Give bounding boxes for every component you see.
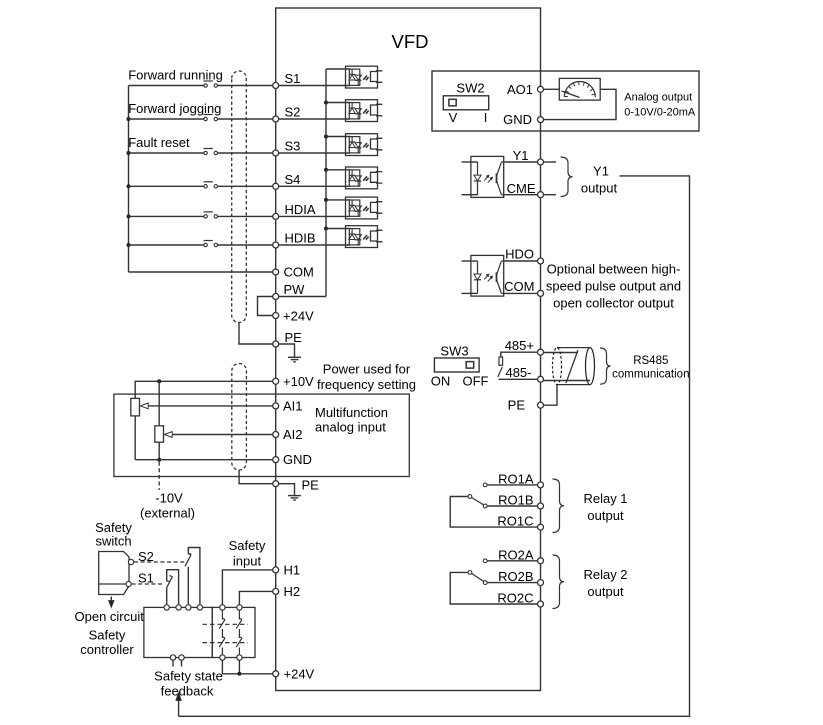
switch S3 left contact bbox=[204, 151, 207, 154]
wire F2 stub bbox=[181, 660, 183, 666]
wire bus to switch S2 bbox=[129, 118, 205, 120]
meter body bbox=[559, 78, 600, 100]
switch HDIA right contact bbox=[214, 215, 217, 218]
svg-text:Relay 1: Relay 1 bbox=[583, 491, 627, 506]
svg-text:GND: GND bbox=[503, 112, 532, 127]
safety controller box bbox=[144, 607, 212, 657]
svg-text:GND: GND bbox=[283, 452, 312, 467]
terminal AI1 bbox=[273, 403, 279, 409]
safety switch divider bbox=[99, 583, 129, 585]
dashed link row1 bbox=[203, 623, 249, 625]
svg-text:OFF: OFF bbox=[463, 374, 489, 389]
terminal PE (485) bbox=[538, 402, 544, 408]
wire analog shield to PE bbox=[239, 470, 273, 484]
junction bus-S3 bbox=[127, 151, 131, 155]
svg-text:+24V: +24V bbox=[284, 666, 315, 681]
wire switch to terminal S4 bbox=[218, 185, 276, 187]
ground symbol (analog PE) bbox=[288, 496, 301, 501]
brace Relay 1 bbox=[553, 479, 565, 533]
twisted pair crossover bbox=[566, 350, 578, 383]
wire switch to terminal S3 bbox=[218, 152, 276, 154]
optocoupler HDO output bbox=[462, 255, 504, 296]
svg-text:HDIB: HDIB bbox=[285, 231, 316, 246]
wire bus to switch S1 bbox=[129, 85, 205, 87]
wire meter to GND bbox=[544, 89, 617, 119]
terminal HDIB bbox=[273, 242, 279, 248]
svg-text:0-10V/0-20mA: 0-10V/0-20mA bbox=[624, 106, 696, 118]
shielded cable (digital inputs) bbox=[232, 71, 247, 323]
wire Y1 output feedback bbox=[179, 176, 690, 716]
svg-text:speed pulse output and: speed pulse output and bbox=[546, 279, 681, 294]
wire S1 loop bbox=[167, 570, 179, 605]
wire RO2 common bbox=[450, 572, 537, 604]
S2 contact arm bbox=[185, 555, 191, 567]
svg-text:RO2C: RO2C bbox=[497, 591, 533, 606]
svg-text:+24V: +24V bbox=[283, 309, 314, 324]
switch S4 lever bbox=[204, 181, 213, 183]
svg-text:PW: PW bbox=[284, 282, 306, 297]
terminal +24V bbox=[273, 313, 279, 319]
switch HDIB right contact bbox=[214, 243, 217, 246]
terminal +10V bbox=[273, 378, 279, 384]
terminal CME bbox=[538, 192, 544, 198]
cable shield bottom bbox=[557, 384, 590, 386]
terminal GND (analog out) bbox=[538, 117, 544, 123]
svg-text:RO1B: RO1B bbox=[498, 493, 533, 508]
relay RO2 contact B bbox=[483, 581, 487, 585]
wire switch to terminal S2 bbox=[218, 118, 276, 120]
svg-text:HDIA: HDIA bbox=[285, 202, 316, 217]
wire RO2B bbox=[487, 582, 538, 584]
terminal HDO bbox=[538, 258, 544, 264]
optocoupler input S4 bbox=[346, 167, 383, 189]
feedback terminal F1 bbox=[170, 655, 175, 660]
wire PW rail to opto S4 bbox=[326, 169, 350, 171]
terminal RO1A bbox=[538, 482, 544, 488]
terminal T1 bbox=[164, 605, 169, 610]
wire PW to opto rail bbox=[279, 296, 326, 298]
terminal B6 bbox=[237, 655, 242, 660]
arrow open circuit bbox=[109, 597, 114, 608]
wire 485- stub bbox=[499, 378, 538, 380]
switch S1 lever bbox=[204, 80, 213, 82]
svg-text:S2: S2 bbox=[285, 105, 301, 120]
terminal H2 input bbox=[237, 605, 242, 610]
wire RO1B bbox=[487, 505, 538, 507]
switch SW3 knob bbox=[466, 362, 474, 369]
safety switch S2 contact bbox=[128, 559, 133, 564]
svg-text:VFD: VFD bbox=[392, 31, 429, 52]
wire B6 down bbox=[238, 660, 240, 674]
terminal PE (top) bbox=[273, 341, 279, 347]
wire Y1 bbox=[504, 161, 541, 163]
switch S4 right contact bbox=[214, 185, 217, 188]
safety switch S1 contact bbox=[126, 581, 131, 586]
safety contact upper x239.4 bbox=[236, 610, 242, 638]
terminal RO2A bbox=[538, 558, 544, 564]
svg-text:CME: CME bbox=[507, 181, 536, 196]
wire left common bus bbox=[128, 86, 130, 273]
switch termination lever bbox=[498, 367, 503, 377]
svg-text:PE: PE bbox=[285, 330, 303, 345]
svg-text:(external): (external) bbox=[140, 506, 195, 521]
svg-text:485+: 485+ bbox=[505, 338, 534, 353]
relay RO1 contact A bbox=[483, 483, 487, 487]
terminal AO1 bbox=[538, 86, 544, 92]
wire pot2 bottom bbox=[158, 442, 160, 460]
wire S2 loop bbox=[188, 548, 200, 605]
wire H1 bbox=[222, 570, 272, 605]
wire PE to ground bbox=[279, 344, 295, 357]
wire Y1 terminal stub bbox=[544, 161, 557, 163]
svg-text:controller: controller bbox=[80, 642, 134, 657]
svg-text:HDO: HDO bbox=[505, 247, 534, 262]
wire terminal S2 to opto bbox=[279, 118, 350, 120]
wire bus to switch HDIB bbox=[129, 244, 205, 246]
svg-text:output: output bbox=[587, 584, 624, 599]
wire PW rail to opto S1 bbox=[326, 68, 350, 70]
shielded cable (analog) bbox=[232, 364, 247, 470]
junction bus-S4 bbox=[127, 184, 131, 188]
optocoupler input HDIA bbox=[346, 197, 383, 219]
svg-text:485-: 485- bbox=[505, 365, 531, 380]
wire safety outputs to +24V bbox=[222, 660, 272, 674]
VFD enclosure box bbox=[276, 8, 541, 691]
optocoupler Y1 output bbox=[462, 156, 504, 197]
svg-text:Fault reset: Fault reset bbox=[128, 135, 190, 150]
wire COM bbox=[129, 271, 276, 273]
svg-text:AI1: AI1 bbox=[283, 398, 303, 413]
switch S1 right contact bbox=[214, 84, 217, 87]
terminal HDIA bbox=[273, 213, 279, 219]
optocoupler input S1 bbox=[346, 66, 383, 88]
wire PW rail to opto S3 bbox=[326, 136, 350, 138]
safety contact upper x222.4 bbox=[219, 610, 225, 638]
ground symbol (top PE) bbox=[288, 357, 301, 362]
svg-text:output: output bbox=[581, 181, 618, 196]
junction bus-HDIB bbox=[127, 243, 131, 247]
optocoupler input S2 bbox=[346, 100, 383, 122]
brace RS485 bbox=[600, 348, 611, 384]
svg-text:Y1: Y1 bbox=[513, 148, 529, 163]
dashed link row2 bbox=[203, 642, 249, 644]
wire HDO bbox=[504, 260, 541, 262]
switch S2 lever bbox=[204, 114, 213, 116]
switch S2 left contact bbox=[204, 117, 207, 120]
junction bus-HDIA bbox=[127, 214, 131, 218]
multifunction analog input box bbox=[114, 394, 409, 476]
potentiometer AI1 bbox=[131, 398, 140, 416]
junction +10V pot2 bbox=[157, 379, 161, 383]
wire S1 arm to controller bbox=[166, 588, 168, 604]
wire RO1A bbox=[487, 484, 538, 486]
wire bus to switch S4 bbox=[129, 185, 205, 187]
terminal T2 bbox=[176, 605, 181, 610]
wire terminal S1 to opto bbox=[279, 85, 350, 87]
terminal S2 bbox=[273, 116, 279, 122]
svg-text:COM: COM bbox=[504, 279, 534, 294]
terminal RO2C bbox=[538, 601, 544, 607]
safety relay contact box bbox=[212, 607, 255, 657]
arrow AI1 wiper bbox=[140, 403, 148, 409]
wire 485+ to resistor bbox=[501, 352, 538, 357]
safety switch body bbox=[99, 552, 129, 595]
wire CME terminal stub bbox=[544, 194, 557, 196]
terminal PW bbox=[273, 294, 279, 300]
junction PW rail HDIA bbox=[324, 198, 328, 202]
wire 485+ into cable bbox=[544, 352, 579, 354]
resistor RS485 termination bbox=[499, 357, 503, 365]
svg-text:SW3: SW3 bbox=[440, 343, 468, 358]
cable shield top bbox=[557, 347, 590, 349]
relay RO2 contact A bbox=[483, 559, 487, 563]
wire AI1 wiper bbox=[148, 405, 273, 407]
svg-text:PE: PE bbox=[302, 478, 320, 493]
relay RO1 contact B bbox=[483, 504, 487, 508]
wire bus to switch HDIA bbox=[129, 215, 205, 217]
terminal +24V (bottom) bbox=[273, 671, 279, 677]
svg-text:H1: H1 bbox=[284, 563, 301, 578]
cable end right bbox=[586, 348, 595, 385]
brace Relay 2 bbox=[553, 555, 565, 609]
svg-text:S1: S1 bbox=[285, 71, 301, 86]
switch HDIA left contact bbox=[204, 215, 207, 218]
svg-text:input: input bbox=[233, 554, 262, 569]
switch SW2 body bbox=[443, 96, 488, 110]
optocoupler input S3 bbox=[346, 134, 383, 156]
terminal COM bbox=[273, 269, 279, 275]
S2 contact arm tick bbox=[188, 554, 191, 555]
terminal T4 bbox=[197, 605, 202, 610]
S1 contact arm bbox=[166, 577, 172, 589]
wire GND rail bbox=[135, 459, 273, 461]
terminal B5 bbox=[220, 655, 225, 660]
wire terminal HDIB to opto bbox=[279, 244, 350, 246]
analog output group box bbox=[432, 71, 699, 131]
wire PE to cable shield bbox=[544, 385, 558, 406]
svg-text:V: V bbox=[449, 110, 458, 125]
relay RO1 arm bbox=[472, 498, 484, 505]
wire switch to terminal HDIB bbox=[218, 244, 276, 246]
wire terminal S3 to opto bbox=[279, 152, 350, 154]
safety contact lower x222.4 bbox=[219, 637, 225, 655]
svg-text:ON: ON bbox=[431, 374, 451, 389]
svg-text:Open circuit: Open circuit bbox=[75, 609, 145, 624]
svg-text:-10V: -10V bbox=[155, 491, 183, 506]
svg-text:S3: S3 bbox=[285, 139, 301, 154]
wire pot1 bottom bbox=[134, 416, 136, 460]
link S1 (dashed) bbox=[132, 583, 164, 585]
wire H2 bbox=[239, 591, 272, 604]
meter dial and needle bbox=[562, 82, 596, 98]
S1 contact hook bbox=[167, 580, 170, 582]
svg-text:RS485: RS485 bbox=[633, 355, 668, 367]
switch S3 right contact bbox=[214, 151, 217, 154]
terminal RO1B bbox=[538, 503, 544, 509]
wire AO1 to meter bbox=[544, 88, 560, 90]
svg-text:switch: switch bbox=[95, 534, 131, 549]
junction GND pot2 bbox=[157, 458, 161, 462]
relay RO2 pivot bbox=[468, 571, 472, 575]
wire S2 arm to controller bbox=[187, 567, 189, 604]
S1 contact arm tick bbox=[169, 576, 172, 577]
wire PW rail to optocouplers bbox=[325, 69, 327, 297]
relay RO2 arm bbox=[472, 573, 484, 581]
wire PW-24V jumper bbox=[258, 297, 273, 316]
terminal S4 bbox=[273, 183, 279, 189]
wire bus to switch S3 bbox=[129, 152, 205, 154]
svg-text:Forward running: Forward running bbox=[128, 68, 223, 83]
svg-text:Optional between high-: Optional between high- bbox=[547, 262, 681, 277]
svg-text:Relay 2: Relay 2 bbox=[583, 567, 627, 582]
svg-text:AI2: AI2 bbox=[283, 427, 303, 442]
terminal Y1 bbox=[538, 159, 544, 165]
wire PW rail to opto HDIB bbox=[326, 228, 350, 230]
switch HDIB lever bbox=[204, 240, 213, 242]
terminal RO2B bbox=[538, 580, 544, 586]
terminal H2 bbox=[273, 588, 279, 594]
svg-text:PE: PE bbox=[508, 398, 526, 413]
wire AI2 wiper bbox=[172, 434, 273, 436]
terminal S3 bbox=[273, 150, 279, 156]
switch S3 lever bbox=[204, 148, 213, 150]
link S2 (dashed) bbox=[134, 561, 185, 563]
terminal H1 bbox=[273, 567, 279, 573]
svg-text:S1: S1 bbox=[138, 571, 154, 586]
svg-text:Multifunction: Multifunction bbox=[315, 405, 388, 420]
relay RO1 pivot bbox=[468, 495, 472, 499]
wire PE analog to ground bbox=[279, 484, 295, 496]
wire +10V rail bbox=[135, 381, 273, 398]
svg-text:Power used for: Power used for bbox=[323, 362, 411, 377]
wire PW rail to opto HDIA bbox=[326, 199, 350, 201]
feedback terminal F2 bbox=[179, 655, 184, 660]
terminal S1 bbox=[273, 83, 279, 89]
potentiometer AI2 bbox=[155, 426, 164, 442]
switch SW3 body bbox=[434, 358, 479, 372]
junction bus-S2 bbox=[127, 117, 131, 121]
wire PW rail to opto S2 bbox=[326, 102, 350, 104]
svg-text:Forward jogging: Forward jogging bbox=[128, 101, 221, 116]
brace Y1 output bbox=[561, 157, 573, 197]
wire RO1 common bbox=[450, 497, 537, 528]
wire terminal S4 to opto bbox=[279, 185, 350, 187]
safety contact lower x239.4 bbox=[236, 637, 242, 655]
svg-text:H2: H2 bbox=[284, 584, 301, 599]
svg-text:Analog output: Analog output bbox=[624, 91, 692, 103]
wire COM (HDO) bbox=[504, 292, 541, 294]
svg-text:COM: COM bbox=[284, 265, 314, 280]
svg-text:+10V: +10V bbox=[283, 374, 314, 389]
junction PW rail S2 bbox=[324, 101, 328, 105]
switch SW2 knob bbox=[449, 99, 456, 106]
optocoupler input HDIB bbox=[346, 226, 383, 248]
wire cable shield to PE bbox=[239, 323, 273, 345]
svg-text:frequency setting: frequency setting bbox=[317, 377, 416, 392]
wire -10V external (dashed) bbox=[158, 462, 160, 490]
terminal PE (analog) bbox=[273, 481, 279, 487]
svg-text:Safety: Safety bbox=[229, 538, 266, 553]
wire switch to terminal HDIA bbox=[218, 215, 276, 217]
terminal GND (analog in) bbox=[273, 457, 279, 463]
svg-text:AO1: AO1 bbox=[507, 82, 533, 97]
terminal T3 bbox=[186, 605, 191, 610]
junction PW rail HDIB bbox=[324, 227, 328, 231]
svg-text:SW2: SW2 bbox=[456, 81, 484, 96]
wire F1 stub bbox=[172, 660, 174, 666]
terminal H1 input bbox=[220, 605, 225, 610]
svg-text:S4: S4 bbox=[285, 172, 301, 187]
S2 contact hook bbox=[188, 553, 191, 555]
wire 485- into cable bbox=[544, 380, 591, 382]
svg-text:Safety state: Safety state bbox=[154, 669, 223, 684]
arrow AI2 wiper bbox=[164, 432, 172, 438]
wire RO2A bbox=[487, 560, 538, 562]
svg-text:S2: S2 bbox=[138, 549, 154, 564]
svg-text:communication: communication bbox=[612, 368, 689, 380]
svg-text:Safety: Safety bbox=[89, 628, 126, 643]
junction PW rail S3 bbox=[324, 135, 328, 139]
svg-text:output: output bbox=[587, 508, 624, 523]
svg-text:RO1C: RO1C bbox=[497, 514, 533, 529]
svg-text:open collector output: open collector output bbox=[553, 296, 674, 311]
svg-text:Y1: Y1 bbox=[593, 164, 609, 179]
terminal COM (HDO) bbox=[538, 290, 544, 296]
svg-text:RO2A: RO2A bbox=[498, 547, 534, 562]
wire terminal HDIA to opto bbox=[279, 215, 350, 217]
terminal RO1C bbox=[538, 524, 544, 530]
svg-text:feedback: feedback bbox=[161, 684, 214, 699]
terminal 485+ bbox=[538, 349, 544, 355]
arrow feedback up bbox=[176, 693, 181, 717]
switch HDIB left contact bbox=[204, 243, 207, 246]
switch S1 left contact bbox=[204, 84, 207, 87]
terminal 485- bbox=[538, 376, 544, 382]
switch S4 left contact bbox=[204, 185, 207, 188]
wire pot2 top bbox=[158, 381, 160, 426]
svg-text:RO1A: RO1A bbox=[498, 471, 534, 486]
junction PW rail S4 bbox=[324, 168, 328, 172]
wire CME bbox=[504, 194, 541, 196]
svg-text:I: I bbox=[484, 110, 488, 125]
switch HDIA lever bbox=[204, 211, 213, 213]
switch S2 right contact bbox=[214, 117, 217, 120]
svg-text:RO2B: RO2B bbox=[498, 569, 533, 584]
junction +24V bbox=[237, 672, 241, 676]
cable end left bbox=[553, 348, 562, 385]
wire switch to terminal S1 bbox=[218, 85, 276, 87]
svg-text:analog input: analog input bbox=[315, 420, 386, 435]
terminal AI2 bbox=[273, 432, 279, 438]
